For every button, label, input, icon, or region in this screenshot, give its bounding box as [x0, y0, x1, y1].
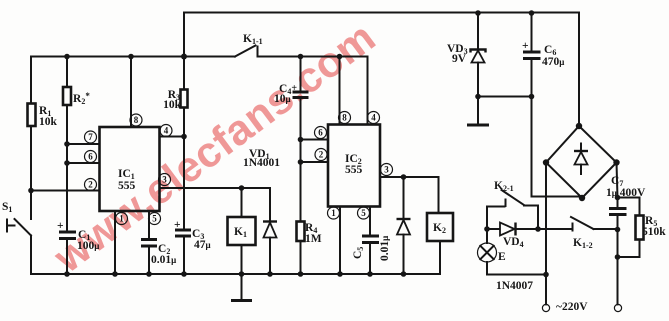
junction (538,229) — [535, 226, 541, 232]
svg-text:7: 7 — [88, 132, 93, 142]
wire: bridge top vertex to top rail — [578, 13, 580, 127]
junction (617.5,257) — [615, 254, 621, 260]
pin 4 IC2 — [368, 112, 380, 124]
terminal: mains right — [614, 304, 621, 311]
pin 1 IC2 — [328, 207, 340, 219]
wire: bridge DC- return to C6/VD3 — [532, 97, 583, 197]
junction (403.5,177) — [401, 174, 407, 180]
svg-text:1N4007: 1N4007 — [496, 280, 533, 292]
svg-text:4: 4 — [371, 113, 376, 123]
resistor R4 1M — [297, 162, 322, 277]
wire: top rail y=12.5 with drop to node at (184,56.5) — [184, 13, 579, 57]
wire: IC1 pin4 lead — [160, 136, 185, 138]
wire: IC1 pin2 lead — [31, 190, 100, 192]
ground symbol below K1 — [231, 299, 252, 302]
svg-text:5: 5 — [152, 214, 157, 224]
svg-text:10k: 10k — [163, 99, 182, 111]
capacitor C3 47u — [174, 137, 211, 277]
bridge rectifier diamond — [543, 123, 620, 201]
node: junction (184,56.5) — [181, 54, 187, 60]
svg-text:2: 2 — [319, 150, 324, 160]
pin 1 IC1 — [116, 213, 128, 225]
pin 3 IC2 — [381, 164, 393, 176]
svg-text:~220V: ~220V — [556, 301, 588, 313]
junction (184,136.5) — [181, 134, 187, 140]
svg-text:10μ: 10μ — [274, 93, 291, 105]
svg-text:3: 3 — [384, 165, 389, 175]
wire: left supply rail y=56.5 — [31, 56, 235, 58]
wire: lamp row to mains left column — [487, 274, 546, 276]
junction (67,144) — [64, 141, 70, 147]
wire: IC2 pin4 lead from rail corner — [367, 57, 369, 125]
svg-text:+: + — [57, 220, 64, 232]
svg-text:8: 8 — [342, 113, 347, 123]
svg-text:100μ: 100μ — [77, 240, 99, 252]
wire: bridge left vertex down to mains terminal — [545, 163, 547, 305]
resistor R3 — [163, 57, 187, 137]
svg-text:1: 1 — [119, 214, 124, 224]
pin 8 IC2 — [339, 112, 351, 124]
diode VD1 1N4001 — [243, 148, 280, 277]
svg-text:S1: S1 — [2, 201, 12, 214]
junction (241.5,188) — [239, 185, 245, 191]
svg-text:5: 5 — [361, 208, 366, 218]
svg-text:470μ: 470μ — [542, 56, 564, 68]
svg-text:K2: K2 — [433, 222, 446, 235]
pin 6 IC2 — [315, 127, 327, 139]
timer IC2 555 — [328, 125, 380, 207]
junction (67,163) — [64, 160, 70, 166]
svg-text:555: 555 — [345, 164, 363, 176]
wire: IC1 pin7 lead — [67, 143, 100, 145]
zener diode VD3 9V — [447, 10, 486, 124]
svg-text:510k: 510k — [642, 226, 666, 238]
junction (478,96.5) — [475, 94, 481, 100]
pin 4 IC1 — [160, 125, 172, 137]
capacitor C1 100u — [57, 220, 99, 277]
pin 2 IC1 — [85, 179, 97, 191]
bridge inner diode — [574, 144, 588, 175]
junction (340,274) — [337, 271, 343, 277]
resistor R1 — [28, 57, 58, 220]
op-amp/timer IC1 555 — [100, 127, 160, 211]
svg-text:+: + — [174, 219, 181, 231]
relay coil K1 — [228, 188, 256, 300]
wire: bottom ground rail y=274 — [31, 273, 440, 275]
switch K1-2 — [538, 217, 618, 250]
svg-text:6: 6 — [318, 128, 323, 138]
svg-text:VD4: VD4 — [503, 236, 524, 249]
svg-text:K1-1: K1-1 — [243, 33, 263, 46]
pin 3 IC1 — [159, 174, 171, 186]
lamp E — [478, 229, 507, 275]
wire: C7 node down to mains terminal right — [617, 230, 619, 305]
capacitor C2 0.01u — [141, 211, 176, 277]
capacitor C5 0.01u — [352, 207, 391, 277]
capacitor C7 1u 400V — [606, 175, 646, 230]
diode VD4 1N4007 — [484, 223, 538, 293]
svg-text:0.01μ: 0.01μ — [151, 254, 176, 266]
resistor R5 510k — [618, 198, 667, 258]
svg-text:6: 6 — [88, 152, 93, 162]
wire: IC1 pin8 lead from rail — [128, 54, 134, 127]
svg-text:10k: 10k — [39, 116, 58, 128]
junction (300.5,162) — [298, 159, 304, 165]
pin 8 IC1 — [130, 114, 142, 126]
svg-text:1: 1 — [331, 208, 336, 218]
svg-text:R2*: R2* — [73, 91, 90, 106]
capacitor C6 470u — [522, 10, 564, 99]
svg-text:3: 3 — [162, 175, 167, 185]
resistor R2 — [63, 54, 90, 231]
pin 5 IC2 — [358, 207, 370, 219]
junction (617.5,197.5) — [615, 195, 621, 201]
capacitor C4 10u — [274, 54, 309, 140]
pin 2 IC2 — [315, 149, 327, 161]
wire: IC2 pin8 lead from rail — [337, 54, 343, 125]
junction (617.5,229.5) — [615, 227, 621, 233]
svg-text:K2-1: K2-1 — [494, 180, 514, 193]
wire: bridge right vertex to C7 node — [617, 163, 618, 198]
svg-text:8: 8 — [134, 115, 139, 125]
svg-text:9V: 9V — [452, 53, 467, 65]
wire: IC1 pin6 lead — [67, 162, 100, 164]
junction (300.5,139.5) — [298, 137, 304, 143]
switch K1-1 — [235, 33, 368, 57]
wire: IC2 pin3 output lead — [380, 176, 439, 178]
relay coil K2 — [427, 177, 453, 274]
pin 7 IC1 — [85, 131, 97, 143]
pin 5 IC1 — [149, 213, 161, 225]
switch K2-1 — [487, 180, 538, 229]
pin 6 IC1 — [85, 151, 97, 163]
svg-text:C5: C5 — [352, 247, 365, 259]
junction (115,274) — [112, 271, 118, 277]
svg-text:4: 4 — [164, 126, 169, 136]
junction (31,190.5) — [28, 188, 34, 194]
svg-text:K1-2: K1-2 — [573, 237, 593, 250]
switch S1 — [2, 201, 31, 274]
wire: IC2 pin6 lead — [301, 139, 329, 141]
svg-text:1M: 1M — [305, 233, 322, 245]
junction (546,274.5) — [543, 272, 549, 278]
svg-text:2: 2 — [88, 180, 93, 190]
wire: IC1 pin1 lead to ground rail — [114, 211, 116, 274]
wire: VD3/C6 negative link y=96.5 — [478, 96, 532, 98]
svg-text:K1: K1 — [234, 226, 247, 239]
ground symbol below VD3 — [467, 124, 489, 127]
svg-text:E: E — [498, 251, 506, 263]
wire: IC1 pin3 output lead — [160, 187, 271, 189]
wire: IC2 pin2 lead — [301, 140, 329, 163]
diode VD2 — [397, 177, 411, 277]
terminal: mains left — [542, 304, 549, 311]
svg-text:0.01μ: 0.01μ — [379, 236, 391, 261]
svg-text:555: 555 — [118, 180, 136, 192]
svg-text:+: + — [522, 40, 529, 52]
svg-text:47μ: 47μ — [194, 239, 211, 251]
wire: IC2 pin1 lead to ground rail — [339, 207, 341, 275]
svg-text:1N4001: 1N4001 — [243, 157, 280, 169]
